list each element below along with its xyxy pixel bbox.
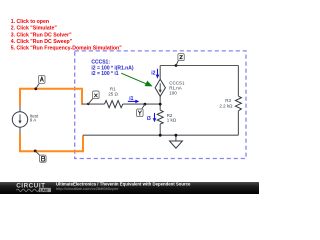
svg-text:http://circuitlab.com/cx28df6b: http://circuitlab.com/cx28df6b5zyne: [56, 186, 119, 191]
svg-text:9 A: 9 A: [30, 118, 37, 123]
svg-text:i3: i3: [147, 116, 151, 122]
svg-text:3. Click "Run DC Solver": 3. Click "Run DC Solver": [11, 32, 72, 38]
svg-text:2. Click "Simulate": 2. Click "Simulate": [11, 26, 58, 32]
svg-text:LAB: LAB: [40, 187, 48, 192]
svg-text:R3: R3: [225, 98, 231, 103]
svg-text:2.2 kΩ: 2.2 kΩ: [219, 103, 233, 108]
svg-text:100: 100: [169, 91, 177, 96]
svg-text:1 kΩ: 1 kΩ: [167, 118, 177, 123]
svg-text:1. Click to open: 1. Click to open: [11, 19, 49, 25]
svg-text:i2: i2: [151, 71, 155, 77]
svg-text:4. Click "Run DC Sweep": 4. Click "Run DC Sweep": [11, 39, 73, 45]
svg-text:i2 = 100 * i1: i2 = 100 * i1: [91, 71, 118, 77]
svg-text:25 Ω: 25 Ω: [108, 91, 118, 96]
